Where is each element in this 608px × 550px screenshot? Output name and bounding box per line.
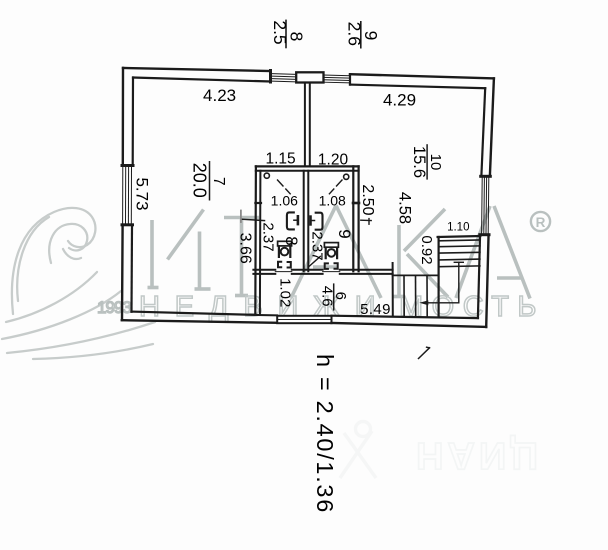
svg-text:8: 8 [282, 236, 301, 245]
svg-text:2.37: 2.37 [309, 231, 326, 260]
stairs lower flight top line [393, 274, 439, 276]
stairs upper flight treads [440, 240, 480, 267]
svg-text:1.10: 1.10 [447, 221, 469, 233]
label 9/2.6 top [344, 21, 381, 49]
svg-text:9: 9 [335, 229, 354, 238]
door threshold room 9 [323, 271, 340, 273]
wall top-right left cap [349, 74, 351, 84]
PLAN [122, 68, 494, 359]
dim marks for 2.50 [361, 219, 371, 221]
svg-text:ЦИАН: ЦИАН [412, 434, 538, 476]
wall top-right outer [350, 74, 494, 78]
stairs enclosure left line [438, 237, 440, 317]
svg-text:15.6: 15.6 [410, 146, 428, 178]
stairs direction arrowhead [419, 300, 428, 305]
svg-text:1.20: 1.20 [318, 151, 349, 168]
wall left inner lower [130, 226, 133, 312]
wall right outer upper [490, 78, 494, 175]
label 8/2.5 top [270, 20, 307, 49]
svg-text:0.92: 0.92 [418, 235, 435, 264]
svg-text:1.02: 1.02 [276, 278, 293, 307]
room 8 dashed diagonal [278, 180, 291, 194]
room label 6/4.6 [319, 283, 349, 310]
wall left cap lower [122, 223, 133, 226]
wall bottom outer right [332, 323, 487, 327]
room 8 vent circle [264, 173, 269, 178]
WATERMARK [2, 206, 550, 479]
svg-text:2.37: 2.37 [260, 222, 277, 251]
room 9 vent circle [344, 174, 349, 179]
stairs direction start tick [454, 261, 463, 263]
svg-text:1.06: 1.06 [271, 193, 298, 209]
wall left outer lower [121, 226, 124, 320]
window W3 left wall [123, 168, 132, 224]
svg-text:1.15: 1.15 [266, 150, 296, 167]
room 8 left wall joint mark [255, 202, 261, 204]
svg-text:НЕДВИЖИ: НЕДВИЖИ [139, 291, 390, 323]
one mark below stairs [419, 347, 430, 358]
room 8 bracket fixture [287, 212, 294, 229]
window W4 right wall [482, 178, 489, 233]
svg-text:2.50: 2.50 [359, 184, 376, 215]
wall right cap lower [480, 233, 489, 236]
bathroom bottom wall segment a [253, 270, 275, 274]
svg-text:h = 2.40/1.36: h = 2.40/1.36 [312, 354, 338, 514]
room 8 door jambs [278, 262, 281, 268]
svg-text:5.49: 5.49 [360, 301, 391, 318]
svg-text:1.08: 1.08 [319, 193, 346, 209]
svg-text:2.5: 2.5 [270, 20, 290, 44]
wall bottom inner corridor [258, 314, 277, 316]
wall left cap upper [122, 164, 133, 167]
room 9 right wall [352, 166, 354, 271]
wall left inner upper [132, 78, 135, 166]
room 9 door jambs [325, 263, 328, 269]
wall right outer lower [486, 237, 488, 327]
stairwell left edge line [392, 263, 394, 317]
bathroom top wall [256, 165, 359, 167]
wall right cap upper [481, 175, 491, 178]
wall top-left outer [123, 68, 270, 71]
svg-text:4.29: 4.29 [383, 91, 416, 110]
svg-text:1993: 1993 [97, 298, 131, 317]
room label 10/15.6 [410, 144, 444, 179]
window W5 bottom wall [277, 316, 331, 323]
wall cap at window [269, 71, 272, 83]
room label 7/20.0 [189, 161, 227, 201]
svg-text:3.66: 3.66 [237, 233, 254, 264]
wall right inner upper [481, 88, 485, 175]
svg-text:2.6: 2.6 [344, 22, 364, 46]
window W2 top wall [324, 75, 351, 83]
watermark registered mark [531, 212, 550, 231]
window W1 top wall [272, 74, 296, 82]
room 9 right wall joint mark [353, 202, 359, 205]
room 9 bracket fixture [316, 213, 323, 230]
wall left outer upper [122, 68, 125, 166]
svg-text:R: R [536, 215, 546, 230]
stairs direction line [428, 262, 459, 303]
svg-text:10: 10 [427, 154, 444, 171]
svg-text:5.73: 5.73 [132, 177, 151, 210]
stairs lower flight treads [404, 275, 427, 317]
room 8 toilet [278, 241, 292, 246]
bathroom bottom wall segment c [340, 270, 393, 274]
svg-text:20.0: 20.0 [189, 163, 209, 198]
svg-text:4.6: 4.6 [319, 286, 336, 307]
door threshold room 8 [275, 271, 292, 273]
wall bottom inner left [132, 312, 257, 315]
wall top-left inner [133, 78, 270, 82]
stairs enclosure top line [438, 236, 481, 237]
room 9 dashed diagonal [329, 180, 342, 194]
svg-text:4.58: 4.58 [396, 192, 414, 224]
bathroom bottom wall segment b [292, 270, 323, 274]
wall right inner lower [478, 237, 480, 318]
svg-text:7: 7 [210, 177, 227, 186]
wall between rooms 8 and 9 [303, 171, 305, 272]
room 9 toilet [324, 243, 338, 248]
wall top-right inner [350, 85, 485, 89]
interior wall rooms 7|10 [304, 83, 306, 167]
watermark cian figure [340, 422, 376, 479]
wall bottom inner stairs [332, 316, 479, 318]
wall bottom outer left [122, 320, 277, 323]
room 8 left wall [254, 166, 257, 314]
watermark big letters ИТАКА [148, 206, 531, 299]
svg-text:4.23: 4.23 [203, 86, 236, 105]
chimney box top wall [296, 72, 323, 82]
watermark wave logo [2, 208, 155, 359]
room 9 door leaf [309, 256, 321, 266]
dim line for 2.37 [242, 219, 265, 220]
